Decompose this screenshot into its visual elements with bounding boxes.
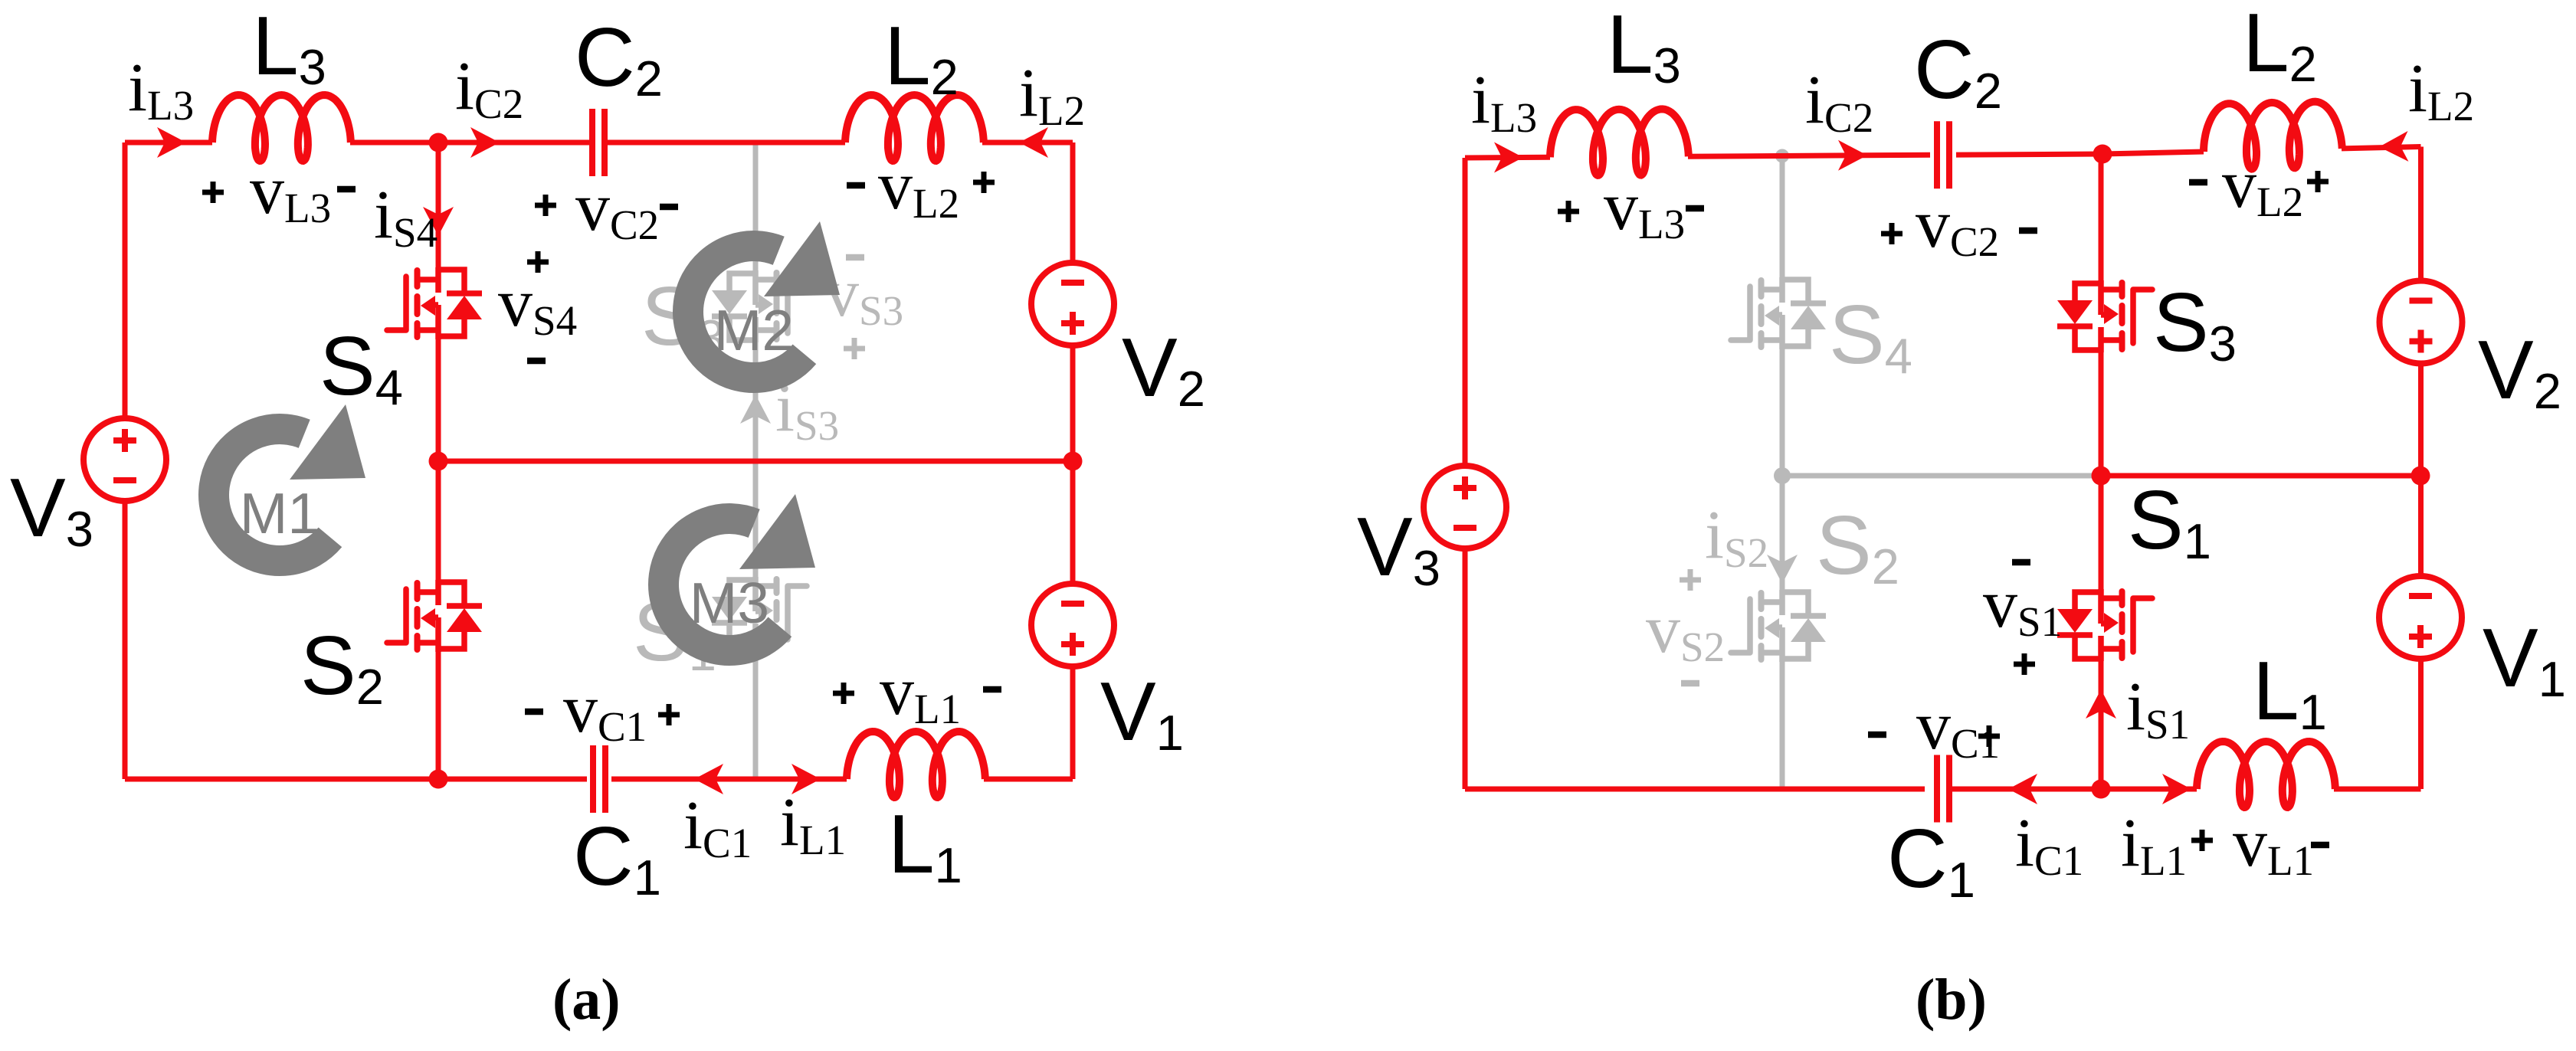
wire: fig(b) bottom rail — [1465, 787, 2421, 792]
label vL3 fig(a) — [202, 152, 356, 231]
current arrow iC2 fig(b) — [1838, 140, 1867, 171]
transistor S4 fig(a) — [387, 267, 482, 339]
mode loop M3 — [664, 494, 815, 650]
label vC1 fig(b) — [1868, 688, 2000, 767]
node gray top junction dot fig(b) — [1775, 149, 1789, 163]
wire: fig(b) inactive leg S4/S2 (gray) — [1780, 156, 1785, 790]
current arrow iS4 fig(a) — [423, 207, 454, 236]
current arrow iC2 fig(a) — [470, 127, 500, 158]
wire: fig(a) right rail — [1070, 142, 1076, 779]
svg-text:M2: M2 — [714, 298, 794, 362]
wire: fig(b) switch leg S3/S1 — [2099, 154, 2104, 789]
node A junction dot fig(a) — [429, 133, 448, 152]
inductor L1 fig(b) — [2197, 742, 2335, 807]
transistor S3 fig(b) — [2057, 280, 2152, 352]
label vS4 fig(a) — [498, 251, 577, 361]
capacitor C2 fig(a) — [592, 109, 605, 176]
current arrow iC1 fig(a) — [694, 764, 723, 794]
wire: fig(a) middle rail — [438, 459, 1073, 464]
wire: fig(b) middle rail gray — [1782, 473, 2101, 479]
label vL2 fig(b) — [2189, 146, 2329, 225]
transistor S3 (inactive, gray) fig(a) — [712, 270, 807, 342]
node mid-left junction dot fig(a) — [429, 452, 448, 471]
wire: fig(b) top rail — [1465, 147, 2421, 159]
inductor L2 fig(a) — [845, 95, 984, 161]
svg-text:(b): (b) — [1916, 968, 1987, 1032]
current arrow iC1 fig(b) — [2008, 774, 2037, 804]
voltage source V2 fig(b) — [2380, 281, 2463, 364]
current arrow iL1 fig(a) — [791, 764, 821, 794]
node mid-right junction dot fig(a) — [1064, 452, 1083, 471]
wire: fig(a) bottom rail — [125, 777, 1073, 782]
svg-text:M1: M1 — [240, 481, 320, 545]
label vL1 fig(a) — [833, 653, 1001, 732]
transistor S1 fig(b) — [2057, 589, 2152, 661]
transistor S2 fig(a) — [387, 580, 482, 652]
wire: fig(b) right rail — [2418, 147, 2424, 790]
voltage source V1 fig(b) — [2379, 576, 2462, 659]
wire: fig(a) inactive leg S3/S1 (gray) — [753, 142, 759, 779]
label vS2 (gray) fig(b) — [1646, 569, 1725, 683]
label vC2 fig(b) — [1881, 186, 2037, 265]
node mid-right junction dot fig(b) — [2411, 467, 2430, 486]
current arrow iS2 (gray) fig(b) — [1767, 536, 1798, 584]
wire: fig(a) top rail — [125, 140, 1073, 146]
capacitor C1 fig(a) — [593, 745, 605, 813]
label vL2 fig(a) — [847, 148, 995, 227]
inductor L3 fig(a) — [212, 95, 351, 161]
transistor S1 (inactive, gray) fig(a) — [712, 577, 807, 649]
wire: fig(a) left rail — [123, 142, 128, 779]
voltage source V3 fig(a) — [84, 418, 166, 501]
node bottom junction dot fig(b) — [2092, 780, 2111, 799]
node B junction dot fig(b) — [2093, 145, 2112, 164]
wire: fig(b) left rail — [1463, 158, 1468, 789]
current arrow iS3 (gray) fig(a) — [740, 370, 839, 449]
wire: fig(b) middle rail red — [2101, 473, 2421, 479]
node bottom junction dot fig(a) — [429, 770, 448, 789]
voltage source V1 fig(a) — [1031, 584, 1114, 666]
inductor L2 fig(b) — [2203, 101, 2343, 170]
voltage source V3 fig(b) — [1424, 466, 1506, 548]
current arrow iL1 fig(b) — [2162, 774, 2191, 804]
transistor S2 (inactive, gray) fig(b) — [1731, 590, 1826, 662]
node mid junction dot fig(b) — [2092, 467, 2111, 486]
current arrow iL3 fig(a) — [157, 127, 186, 158]
label vS1 fig(b) — [1983, 562, 2062, 675]
capacitor C1 fig(b) — [1937, 755, 1949, 823]
mode loop M2 — [688, 221, 840, 378]
current arrow iL2 fig(a) — [1019, 127, 1048, 158]
voltage source V2 fig(a) — [1031, 263, 1114, 345]
current arrow iL2 fig(b) — [2379, 131, 2409, 162]
svg-text:(a): (a) — [552, 968, 621, 1032]
node gray mid junction dot fig(b) — [1774, 467, 1791, 484]
current arrow iL3 fig(b) — [1494, 142, 1523, 173]
transistor S4 (inactive, gray) fig(b) — [1731, 277, 1826, 349]
label vL3 fig(b) — [1558, 169, 1704, 247]
mode loop M1 — [214, 404, 365, 561]
label vL1 fig(b) — [2191, 805, 2329, 884]
label vC2 fig(a) — [535, 169, 678, 248]
label vC1 fig(a) — [525, 671, 680, 750]
svg-text:M3: M3 — [690, 571, 769, 635]
inductor L1 fig(a) — [847, 732, 985, 797]
inductor L3 fig(b) — [1550, 109, 1689, 175]
capacitor C2 fig(b) — [1937, 121, 1949, 188]
current arrow iS1 fig(b) — [2086, 689, 2116, 735]
label vS3 (gray) fig(a) — [824, 255, 903, 359]
wire: fig(a) switch leg S4/S2 — [436, 142, 441, 779]
